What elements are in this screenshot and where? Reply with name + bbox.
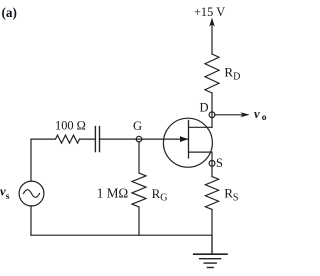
wire RD to drain bbox=[211, 93, 213, 127]
bottom wire bbox=[31, 234, 212, 236]
svg-text:s: s bbox=[6, 192, 10, 202]
transistor Q1 JFET body bbox=[163, 118, 212, 167]
transistor channel bar bbox=[188, 120, 190, 158]
wire RS to ground bbox=[211, 210, 213, 255]
svg-text:RS: RS bbox=[224, 186, 238, 204]
resistor RS bbox=[205, 177, 218, 210]
wire vs to bottom bbox=[30, 206, 32, 235]
resistor RG bbox=[132, 173, 146, 207]
sine wave inside vs bbox=[24, 190, 40, 198]
wire node G down to RG bbox=[138, 142, 140, 173]
transistor gate wire with arrowhead bbox=[142, 138, 188, 140]
wire capacitor to node G bbox=[100, 138, 142, 140]
svg-text:(a): (a) bbox=[2, 5, 17, 20]
svg-text:100 Ω: 100 Ω bbox=[55, 119, 86, 133]
node S bbox=[209, 161, 215, 167]
svg-text:o: o bbox=[262, 113, 267, 123]
source vs circle bbox=[19, 181, 44, 206]
supply arrow +15V bbox=[211, 23, 213, 54]
wire RG to bottom bbox=[138, 207, 140, 235]
transistor source lead bbox=[189, 152, 213, 176]
svg-text:v: v bbox=[254, 107, 260, 121]
ground bbox=[194, 253, 227, 255]
wire resistor to capacitor bbox=[80, 138, 96, 140]
node G bbox=[136, 136, 142, 142]
svg-text:RG: RG bbox=[152, 186, 168, 204]
capacitor C1 bbox=[94, 127, 96, 152]
vo output arrow bbox=[215, 114, 244, 116]
wire input left horizontal bbox=[31, 138, 56, 140]
node D bbox=[209, 112, 215, 118]
resistor 100 ohm bbox=[56, 135, 80, 143]
svg-text:G: G bbox=[133, 119, 142, 133]
svg-text:1 MΩ: 1 MΩ bbox=[97, 185, 129, 200]
svg-text:RD: RD bbox=[224, 65, 240, 83]
svg-text:+15 V: +15 V bbox=[194, 5, 225, 19]
svg-text:D: D bbox=[200, 101, 209, 115]
svg-text:S: S bbox=[216, 156, 223, 170]
transistor drain lead bbox=[189, 126, 213, 128]
resistor RD bbox=[205, 54, 219, 93]
wire left vertical top bbox=[30, 139, 32, 181]
wire bottom T to ground bbox=[211, 235, 213, 254]
